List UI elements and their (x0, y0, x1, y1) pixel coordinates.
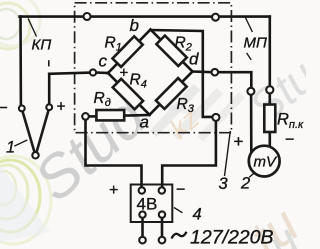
resistor Rd (96, 110, 124, 120)
svg-text:−: − (285, 132, 294, 149)
label 3 leader (225, 131, 231, 176)
wire c-node branch vertical to switch (48, 74, 51, 104)
wire mV left lead (250, 95, 253, 152)
resistor R1 (112, 36, 142, 67)
wire d to terminal (193, 70, 212, 73)
wire battery stub left to AC terminal (141, 218, 144, 237)
terminal on c branch (90, 69, 96, 75)
resistor R4 (113, 79, 143, 109)
svg-text:a: a (140, 113, 149, 132)
svg-text:2: 2 (240, 175, 250, 193)
wire Rpk top lead (268, 94, 271, 105)
svg-text:4В: 4В (137, 195, 158, 214)
svg-text:+: + (234, 132, 244, 151)
wire battery stub right to AC terminal (161, 218, 164, 237)
AC terminal left (139, 237, 146, 244)
battery terminal top right (159, 187, 165, 193)
label 1 leader (14, 140, 27, 146)
svg-text:4: 4 (193, 206, 202, 224)
svg-text:d: d (189, 50, 199, 69)
svg-text:3: 3 (219, 175, 229, 193)
wire bridge arm b-d (151, 30, 193, 72)
wire Rd terminal down to battery plus (86, 120, 142, 187)
svg-text:+: + (109, 182, 118, 199)
terminal Rpk lead (266, 86, 273, 93)
svg-text:127/220В: 127/220В (190, 227, 274, 249)
AC terminal right (159, 237, 166, 244)
battery terminal bottom right (159, 211, 165, 217)
dashed enclosure box (device boundary, label 3) (75, 3, 232, 133)
svg-text:+: + (57, 99, 66, 116)
tick below KP (48, 60, 50, 66)
label MP leader upper (245, 18, 252, 33)
label 4 leader (174, 208, 183, 213)
wire Rpk bottom lead to mV (268, 132, 271, 147)
terminal on d branch (212, 69, 219, 76)
terminal on b branch (212, 114, 219, 121)
svg-text:КП: КП (32, 37, 52, 54)
wire Rd terminal to box (89, 115, 97, 118)
svg-text:1: 1 (6, 139, 15, 157)
wire terminal down to battery minus (162, 121, 216, 187)
label KP leader (28, 19, 36, 37)
switch pivot (32, 152, 38, 158)
battery box 4V (131, 185, 173, 223)
svg-text:b: b (130, 16, 139, 35)
label 2 leader (249, 172, 255, 177)
wire left drop to switch (19, 17, 22, 106)
svg-text:−: − (176, 182, 185, 199)
wire top bus horizontal (20, 15, 270, 18)
label MP leader lower (247, 53, 252, 60)
switch blade left (23, 111, 35, 152)
switch left contact (19, 106, 25, 112)
resistor R2 (156, 36, 186, 66)
wire right drop to Rpk terminal (268, 17, 271, 87)
wire c-node branch horizontal (49, 73, 90, 74)
wire bridge arm a-d (150, 72, 193, 115)
terminal on top bus left (84, 13, 91, 20)
wire b branch to terminal (151, 30, 213, 117)
wire stub circle to c node (96, 71, 108, 74)
AC supply label (172, 232, 187, 239)
switch right contact (46, 104, 52, 110)
battery terminal bottom left (139, 211, 145, 217)
millivoltmeter mV (249, 146, 280, 177)
terminal on top bus right (212, 14, 219, 21)
resistor R3 (156, 78, 187, 109)
terminal on Rd branch (82, 113, 89, 120)
wire bridge arm c-a (108, 73, 150, 115)
resistor Rpk (264, 105, 275, 133)
svg-text:+: + (120, 65, 129, 82)
terminal mV left lead (247, 88, 254, 95)
svg-text:−: − (0, 100, 8, 117)
svg-text:mV: mV (254, 154, 278, 171)
switch blade right (37, 110, 49, 152)
wire bridge arm c-b (108, 30, 151, 74)
svg-text:МП: МП (244, 35, 267, 52)
wire Rd box to node a (124, 114, 149, 117)
wire terminal to mV left drop (218, 72, 251, 88)
battery terminal top left (139, 187, 145, 193)
svg-text:c: c (99, 52, 108, 71)
